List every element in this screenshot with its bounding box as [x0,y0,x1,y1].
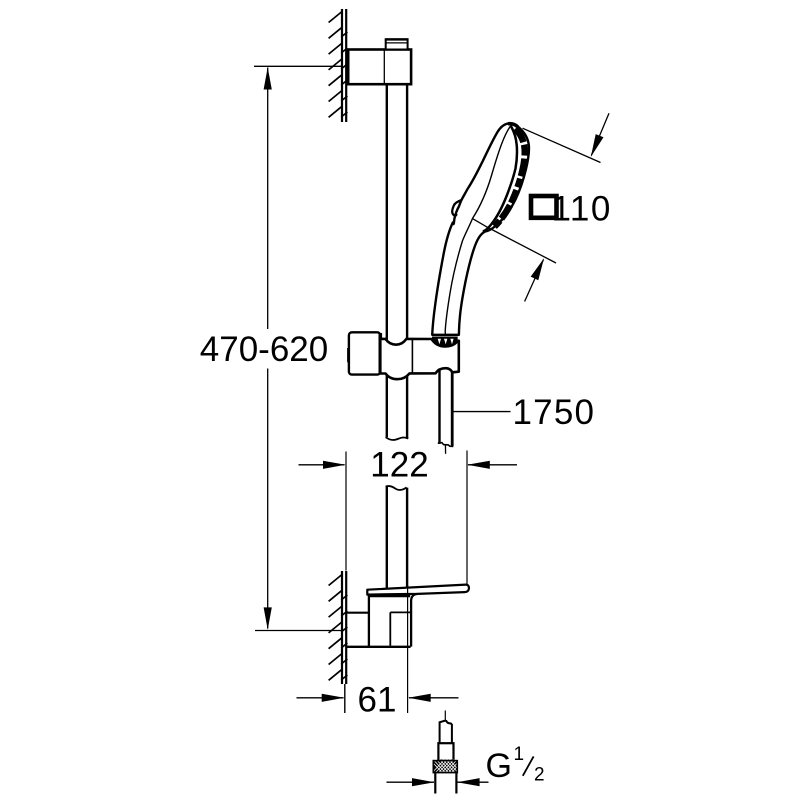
dimension 61 left arrow [297,697,344,699]
wall bottom hatching [329,575,348,680]
dimension 122 right arrow [468,464,517,466]
hose connector center line [444,711,446,721]
slider body [380,339,459,379]
wall top hatching [329,12,348,117]
slider knob end cap [347,348,350,362]
hose connector knurled nut [430,760,464,774]
dimension 110 lower extension line [472,218,556,263]
dimension 1750 leader [454,411,511,413]
dimension 110 upper extension line [523,128,601,162]
bottom bracket wall plate top [347,612,369,614]
dimension 61 left extension line [344,684,346,713]
hose connector top piece [440,721,452,743]
dimension 470-620 bottom reference line [255,630,341,632]
wall bottom double line [342,571,346,684]
dimension 110 square symbol [531,196,557,218]
dimension 470-620 top reference line [254,65,341,67]
hand shower inner line [445,127,510,336]
rail break wave top [386,437,409,440]
dimension G1/2 left arrow [387,781,435,783]
dimension 61 right arrow [409,697,459,699]
dimension 122 left extension line [345,452,347,571]
svg-text:470-620: 470-620 [200,330,328,369]
svg-text:G: G [486,747,512,785]
hose connector sleeve [438,743,453,760]
hose break [438,443,454,447]
dimension 470-620 line [267,68,269,330]
hand shower button [452,200,462,216]
svg-text:1: 1 [514,744,525,765]
slider flange [378,333,382,374]
rail lower segment [387,487,407,589]
hose connector pipe [435,773,456,794]
hand shower outline [432,123,529,334]
dimension 470-620 arrow up [264,67,272,89]
svg-text:2: 2 [534,765,545,786]
svg-text:110: 110 [552,190,612,229]
dimension 122 right extension line [466,451,468,587]
slider divider line [411,339,413,373]
top bracket cap [386,39,408,49]
dimension 110 upper arrow [591,113,609,155]
rail break wave resume [386,486,407,490]
bottom bracket inner step [390,612,411,645]
hand shower inlet double line [432,334,458,336]
bottom bracket body [347,594,418,647]
top wall bracket [348,50,411,85]
bottom bracket lever [367,585,469,595]
svg-text:122: 122 [370,446,428,485]
dimension 122 left arrow [299,464,345,466]
hand shower inlet teeth [432,338,458,346]
svg-text:1750: 1750 [513,393,596,432]
hand shower spray face [483,124,525,232]
rail upper segment [387,85,407,340]
dimension 61 right extension line [407,585,409,713]
top bracket inner line [383,50,385,85]
hose upper [440,370,453,446]
dimension 470-620 arrow down [264,607,272,629]
slider knob [349,332,380,374]
dimension 110 lower arrow [525,260,544,302]
wall top double line [342,9,346,122]
svg-text:61: 61 [358,681,397,720]
rail middle segment [387,374,407,439]
dimension G1/2 right arrow [458,781,489,783]
